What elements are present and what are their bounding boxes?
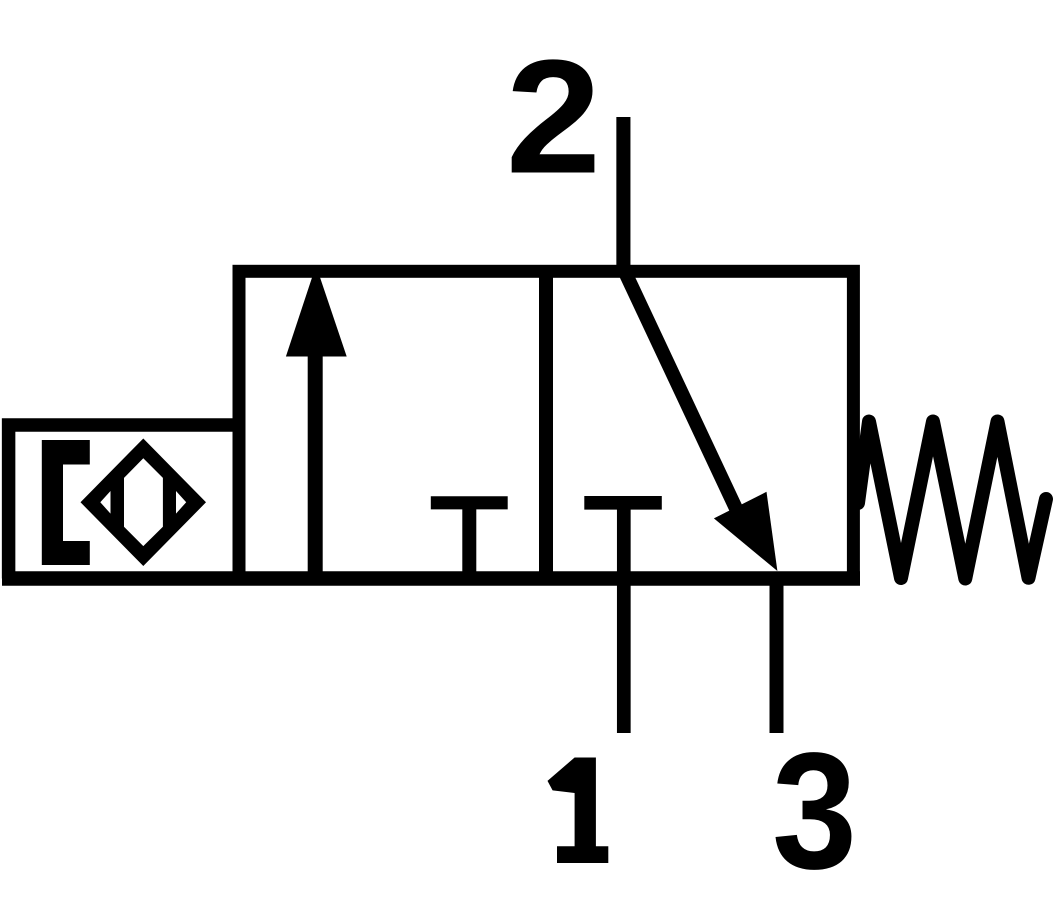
port label 2 — [506, 27, 602, 208]
diagonal flow arrow 2 to 3 in right position — [625, 271, 778, 571]
port 2 line — [616, 117, 630, 277]
blocked port T symbol, left position — [431, 503, 508, 572]
port 1 line (T stem continuing below) — [617, 503, 631, 733]
port label 3 — [772, 718, 857, 903]
svg-text:2: 2 — [506, 27, 602, 208]
position divider wire — [539, 265, 553, 585]
blocked port T symbol, right position — [584, 496, 662, 510]
bracket symbol in pilot box — [42, 440, 90, 565]
bottom rail wire — [2, 571, 860, 586]
up-arrow flow path in left position — [286, 266, 347, 574]
solenoid diamond symbol — [81, 439, 207, 567]
return spring — [858, 422, 1046, 579]
port 3 line — [770, 572, 784, 733]
port label 1 — [548, 758, 609, 864]
pilot actuator box — [9, 425, 239, 579]
svg-text:3: 3 — [772, 718, 857, 903]
valve body outline (two-position box) — [239, 271, 853, 578]
